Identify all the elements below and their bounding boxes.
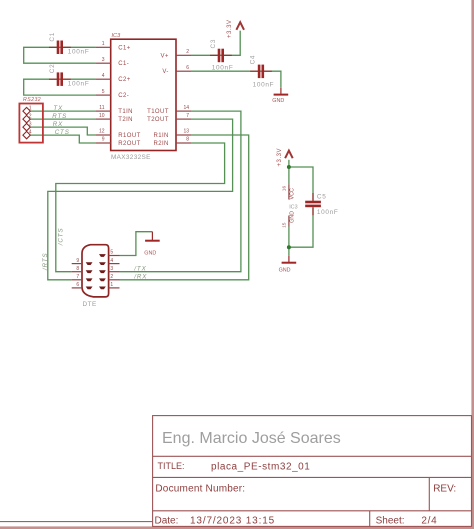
svg-text:11: 11: [99, 105, 104, 111]
svg-text:placa_PE-stm32_01: placa_PE-stm32_01: [211, 462, 310, 473]
title block divider under name row: [153, 455, 472, 457]
title block Sheet divider: [369, 511, 371, 527]
pin 3 C1- stub: [96, 62, 111, 64]
DB9 left pin numbers: [76, 258, 79, 288]
svg-text:C4: C4: [250, 55, 257, 65]
svg-text:C2+: C2+: [118, 77, 130, 83]
svg-text:9: 9: [102, 137, 105, 143]
connector RS232 header outline: [19, 104, 43, 143]
svg-text:6: 6: [186, 65, 189, 71]
connector X1 DB9 body: [82, 245, 109, 297]
svg-text:/TX: /TX: [133, 266, 146, 273]
IC pin names right column: [147, 53, 169, 147]
op-amp U1 body: IC MAX3232 rectangle: [111, 39, 176, 150]
svg-text:8: 8: [76, 266, 79, 272]
DB9 pin 8 stub: [72, 271, 82, 273]
wire V+ to C3 and +3.3V: [191, 31, 240, 56]
svg-text:TITLE:: TITLE:: [158, 461, 185, 471]
pin 8 R2IN stub: [176, 142, 191, 144]
wire TX: [30, 110, 95, 112]
svg-text:15: 15: [281, 222, 287, 228]
svg-text:/CTS: /CTS: [58, 227, 65, 246]
svg-text:+3.3V: +3.3V: [277, 148, 283, 167]
wire C1 loop pin1 to pin3: [24, 47, 96, 63]
svg-text:RTS: RTS: [52, 113, 67, 120]
DB9 pin 3 stub: [109, 271, 120, 273]
svg-text:16: 16: [281, 186, 287, 192]
svg-text:3: 3: [110, 266, 113, 272]
pin 4 C2+ stub: [96, 78, 111, 80]
supply +3.3V arrow (power rail): [277, 148, 293, 167]
pin 14 T1OUT stub: [176, 110, 191, 112]
svg-text:V-: V-: [162, 69, 168, 75]
wire C5 branch: [289, 167, 313, 247]
svg-text:Document Number:: Document Number:: [155, 484, 245, 495]
pin 7 T2OUT stub: [176, 118, 191, 120]
svg-text:3: 3: [102, 57, 105, 63]
pin 10 T2IN stub: [96, 118, 111, 120]
svg-text:12: 12: [99, 129, 105, 135]
svg-text:T1IN: T1IN: [118, 109, 133, 115]
svg-text:6: 6: [76, 282, 79, 288]
header pin 1 diamond: [23, 107, 30, 114]
svg-text:R2OUT: R2OUT: [118, 141, 140, 147]
svg-text:REV:: REV:: [433, 484, 456, 495]
capacitor C5 (vertical): [305, 193, 338, 216]
svg-text:10: 10: [99, 113, 105, 119]
svg-text:GND: GND: [289, 211, 295, 223]
svg-text:7: 7: [186, 113, 189, 119]
svg-text:1: 1: [110, 282, 113, 288]
svg-text:4: 4: [29, 130, 32, 136]
svg-text:14: 14: [183, 105, 189, 111]
wire RX: [30, 127, 95, 135]
svg-text:13: 13: [183, 129, 189, 135]
svg-text:RS232: RS232: [23, 97, 41, 103]
svg-text:C5: C5: [317, 194, 327, 201]
DB9 pin 5 stub: [109, 255, 120, 257]
svg-text:C1+: C1+: [118, 45, 130, 51]
title block divider under document row: [153, 510, 472, 512]
capacitor C3: [210, 39, 234, 72]
svg-text:/RTS: /RTS: [42, 252, 49, 271]
svg-text:DTE: DTE: [83, 301, 97, 308]
wire /TX net T1OUT to DB9 pin3: [120, 111, 241, 272]
ground symbol below power rail: [279, 256, 297, 273]
svg-text:5: 5: [110, 250, 113, 256]
svg-text:100nF: 100nF: [253, 82, 275, 89]
DB9 right pin numbers: [110, 250, 113, 288]
header pin 2 diamond: [23, 115, 30, 122]
svg-text:T2OUT: T2OUT: [147, 117, 169, 123]
frame bottom border band: [0, 526, 474, 529]
IC power gate pin 15 GND stub: [281, 211, 295, 228]
pin 11 T1IN stub: [96, 110, 111, 112]
title block outline: [153, 416, 472, 527]
svg-text:Eng. Marcio José Soares: Eng. Marcio José Soares: [162, 430, 341, 447]
svg-text:4: 4: [110, 258, 113, 264]
svg-text:GND: GND: [279, 267, 291, 273]
svg-text:IC3: IC3: [112, 33, 122, 39]
pin 1 C1+ stub: [96, 46, 111, 48]
svg-text:CTS: CTS: [55, 129, 70, 136]
svg-text:100nF: 100nF: [212, 65, 234, 72]
pin 5 C2- stub: [96, 94, 111, 96]
svg-text:Sheet:: Sheet:: [376, 515, 405, 526]
DB9 right pin wedges: [99, 254, 106, 289]
svg-text:C2: C2: [49, 64, 56, 74]
left pin numbers 1 3 4 5 11 10 12 9: [99, 41, 105, 143]
svg-text:1: 1: [102, 41, 105, 47]
svg-text:R1OUT: R1OUT: [118, 133, 140, 139]
svg-text:C1: C1: [49, 32, 56, 42]
pin 6 V- stub: [176, 70, 191, 72]
svg-text:13/7/2023 13:15: 13/7/2023 13:15: [190, 515, 275, 526]
svg-text:2: 2: [29, 114, 32, 120]
DB9 pin 2 stub: [109, 279, 120, 281]
right pin numbers 2 6 14 7 13 8: [183, 49, 189, 143]
svg-text:7: 7: [76, 274, 79, 280]
wire IC power pin15 to GND: [288, 227, 290, 256]
header pin 4 diamond: [23, 131, 30, 138]
svg-text:V+: V+: [160, 53, 168, 59]
header pin numbers: [29, 106, 32, 136]
svg-text:100nF: 100nF: [68, 81, 90, 88]
wire RTS: [30, 118, 95, 120]
svg-text:GND: GND: [144, 251, 156, 257]
svg-text:3: 3: [29, 122, 32, 128]
svg-text:R2IN: R2IN: [154, 141, 169, 147]
DB9 pin 4 stub (n.c.): [109, 263, 120, 265]
DB9 left pin wedges: [86, 262, 93, 289]
frame right border band: [471, 0, 474, 529]
svg-text:5: 5: [102, 89, 105, 95]
svg-text:1: 1: [29, 106, 32, 112]
svg-text:RX: RX: [53, 121, 63, 128]
node A junction dot: [287, 165, 291, 169]
node B junction dot: [287, 245, 291, 249]
svg-text:T2IN: T2IN: [118, 117, 133, 123]
svg-text:TX: TX: [53, 105, 63, 112]
DB9 pin 7 stub: [72, 279, 82, 281]
IC pin names left column: [118, 45, 140, 147]
ground symbol at DB9 pin5: [144, 232, 159, 257]
svg-text:2: 2: [110, 274, 113, 280]
svg-text:T1OUT: T1OUT: [147, 109, 169, 115]
svg-text:MAX3232SE: MAX3232SE: [111, 154, 151, 161]
svg-text:2/4: 2/4: [421, 515, 437, 526]
svg-text:/RX: /RX: [133, 274, 147, 281]
title block divider under TITLE row: [153, 476, 472, 478]
svg-text:+3.3V: +3.3V: [227, 19, 233, 38]
svg-text:2: 2: [186, 49, 189, 55]
svg-text:R1IN: R1IN: [154, 133, 169, 139]
DB9 pin 9 stub (n.c.): [72, 263, 82, 265]
pin 13 R1IN stub: [176, 134, 191, 136]
ground symbol at C4: [272, 88, 288, 104]
svg-text:100nF: 100nF: [317, 209, 339, 216]
svg-text:IC3: IC3: [289, 205, 297, 211]
svg-text:C2-: C2-: [118, 93, 129, 99]
pin 9 R2OUT stub: [96, 142, 111, 144]
svg-text:C3: C3: [210, 39, 217, 49]
wire /RTS net T2OUT to DB9 pin7: [48, 119, 233, 280]
wire /RX net R1IN to DB9 pin2: [120, 135, 249, 280]
DB9 pin 6 stub (n.c.): [72, 287, 82, 289]
capacitor C4: [250, 55, 275, 89]
wire V- to C4 and GND: [191, 71, 281, 88]
IC power gate pin 16 VCC stub: [281, 184, 295, 199]
svg-text:100nF: 100nF: [68, 49, 90, 56]
supply +3.3V arrow (top, at C3): [227, 19, 244, 38]
DB9 pin 1 stub (n.c.): [109, 287, 120, 289]
wire C2 loop pin4 to pin5: [24, 79, 96, 95]
frame bottom inner line: [0, 521, 153, 523]
svg-text:9: 9: [76, 258, 79, 264]
wire +3.3V rail to IC power: [288, 160, 290, 184]
capacitor C2: [49, 64, 89, 88]
title block REV divider: [428, 477, 430, 510]
svg-text:8: 8: [186, 137, 189, 143]
wire /CTS net R2IN to DB9 pin8: [56, 143, 225, 272]
wire DB9 pin5 to GND: [120, 232, 153, 256]
pin 12 R1OUT stub: [96, 134, 111, 136]
svg-text:VCC: VCC: [289, 188, 295, 199]
svg-text:GND: GND: [272, 98, 284, 104]
svg-text:4: 4: [102, 73, 105, 79]
capacitor C1: [49, 32, 89, 56]
svg-text:Date:: Date:: [155, 515, 179, 526]
wire CTS: [30, 135, 95, 143]
header pin 3 diamond: [23, 123, 30, 130]
pin 2 V+ stub: [176, 54, 191, 56]
svg-text:C1-: C1-: [118, 61, 129, 67]
